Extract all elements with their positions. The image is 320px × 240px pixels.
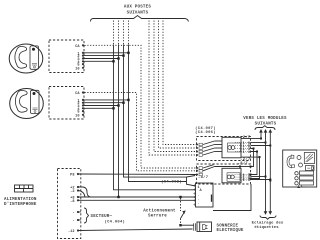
bus wire B1 dashed top [113, 21, 115, 45]
svg-text:-8/7: -8/7 [198, 175, 209, 180]
post X2 pin 10 [75, 114, 84, 119]
svg-text:VERS LES MODULES: VERS LES MODULES [243, 117, 287, 121]
U4 top out row [241, 166, 251, 168]
module U4 dashed box [197, 164, 251, 184]
post X1 pin 5 [77, 63, 84, 68]
bus wire B4 solid [129, 45, 187, 182]
svg-text:SUIVANTS: SUIVANTS [127, 12, 149, 16]
junction switch top [179, 196, 181, 198]
junction [112, 60, 114, 62]
post X2 pin 1 [77, 99, 84, 104]
svg-text:SONNERIE: SONNERIE [217, 224, 239, 228]
vers vertical 2 [264, 130, 266, 143]
junction [127, 52, 129, 54]
svg-text:Actionnement: Actionnement [143, 209, 176, 214]
call wire CA1 from post 1 [85, 45, 197, 168]
PS1 pin sect2 [72, 219, 80, 224]
svg-text:10: 10 [75, 67, 79, 71]
PS1 pin -2 [70, 189, 79, 194]
wire post1 pin1 to bus [84, 52, 129, 54]
bus wire B3 solid [124, 45, 187, 178]
bell H1 [194, 222, 212, 232]
actionnement serrure text [143, 209, 176, 219]
svg-text:-12: -12 [68, 230, 74, 234]
SECTEUR brace [84, 208, 89, 223]
post X1 pin 2 [77, 55, 84, 60]
svg-text:A: A [200, 189, 203, 193]
svg-text:(C4.006): (C4.006) [195, 130, 216, 135]
junction [117, 104, 119, 106]
wire B to door box [78, 199, 196, 201]
legend buttons [300, 171, 314, 175]
junction [122, 102, 124, 104]
post X1 pin 10 [75, 67, 84, 72]
eclairage text [252, 220, 284, 230]
svg-text:ALIMENTATION: ALIMENTATION [4, 198, 37, 202]
PS1 pin +2 [70, 186, 79, 191]
vers vertical 3 [269, 130, 271, 146]
station column S4 dashed [163, 21, 197, 145]
funnel connector [187, 176, 196, 187]
svg-text:(C4.008): (C4.008) [161, 180, 182, 185]
U3 out wire 3 [251, 145, 271, 147]
wire post1 pin2 to bus [84, 55, 124, 57]
post X2 pin 3 [77, 104, 84, 109]
U3 top out row [241, 138, 251, 140]
telephone icon P2 [10, 89, 44, 119]
wire post2 pin2 to bus [84, 102, 124, 104]
U3 coil symbol [228, 143, 241, 152]
alimentation text [4, 198, 37, 207]
brace under title [91, 16, 189, 22]
post X1 pin CA [75, 44, 84, 49]
svg-text:Serrure: Serrure [148, 215, 167, 219]
U3 pin rows dashed [235, 143, 251, 152]
U3 pin connectors [196, 143, 202, 156]
PS1 pin P8 [70, 173, 81, 178]
U3 out wire 6 down [251, 157, 260, 178]
bus wire B2 dashed top [118, 21, 120, 45]
post X2 pin 4 [77, 107, 84, 112]
legend handset [288, 157, 292, 167]
svg-text:-8/7: -8/7 [238, 161, 249, 166]
vers vertical 1 [260, 130, 262, 139]
svg-text:SECTEUR—: SECTEUR— [91, 215, 113, 219]
PS1 pin -12 [68, 229, 79, 234]
wire +2/-2 merge [78, 187, 91, 197]
post box X2 dashed [49, 87, 84, 120]
door station box U5 [196, 183, 214, 207]
U5 labels [198, 186, 203, 206]
U3 out wire 5 down [251, 152, 258, 175]
power supply box PS1 dashed [58, 169, 81, 239]
svg-text:(C4.004): (C4.004) [105, 220, 126, 225]
PS1 pin sect1 [72, 211, 80, 216]
title AUX POSTES SUIVANTS [124, 6, 151, 16]
wire U4 corner down to door box [213, 184, 251, 211]
bus wire B2 solid [118, 45, 120, 198]
call wire CA2 from post 2 [85, 93, 197, 171]
wire A to door box [78, 196, 196, 198]
U3 bottom out row [241, 156, 251, 158]
PS1 pin +8 [70, 196, 79, 201]
wire post2 pin1 to bus [84, 99, 129, 101]
bus wire B1 solid [114, 45, 196, 190]
svg-text:-: - [72, 212, 74, 216]
sonnerie text [217, 224, 244, 233]
svg-text:-2/7: -2/7 [240, 135, 251, 140]
wire P8 to U4 [78, 173, 197, 176]
svg-text:D'INTERPHONE: D'INTERPHONE [4, 202, 37, 207]
U5 right edge connector bar [211, 195, 213, 202]
bus wire B4 dashed top [128, 21, 130, 45]
junction switch bottom [179, 224, 181, 226]
post X2 pin 5 [77, 110, 84, 115]
junction [122, 54, 124, 56]
junction [127, 99, 129, 101]
wire post1 pin4 to bus [84, 60, 114, 62]
legend speaker [304, 153, 314, 164]
station column S1 dashed [149, 21, 197, 156]
station column S2 dashed [154, 21, 197, 152]
post X1 pin 3 [77, 57, 84, 62]
svg-text:-8: -8 [70, 200, 74, 204]
post X2 pin 2 [77, 102, 84, 107]
U3 out wire 1 [251, 138, 262, 140]
svg-text:-: - [72, 220, 74, 224]
svg-text:-2: -2 [70, 190, 74, 194]
vers continuation vertical 2 down [264, 143, 266, 214]
U4 inner module box [222, 168, 241, 183]
svg-text:-1.1: -1.1 [240, 151, 251, 155]
post X1 pin 1 [77, 52, 84, 57]
svg-text:AUX POSTES: AUX POSTES [124, 6, 151, 10]
station column S3 dashed [159, 21, 197, 149]
bus wire B3 dashed top [123, 21, 125, 45]
U5 pins [194, 185, 196, 206]
post box X1 dashed [49, 40, 84, 73]
U3 out wire 4 down [251, 149, 254, 167]
wire post1 pin3 to bus [84, 58, 119, 60]
U4 right labels [238, 161, 251, 183]
telephone icon P1 [9, 44, 43, 73]
svg-text:-1.1: -1.1 [240, 179, 251, 183]
U4 out wires right [251, 177, 272, 181]
svg-text:P8: P8 [70, 174, 74, 178]
brace under VERS [255, 126, 275, 130]
svg-text:Eclairage des: Eclairage des [252, 220, 284, 225]
vers continuation vertical 3 down [269, 146, 271, 214]
wire post2 pin3 to bus [84, 105, 119, 107]
U4 coil symbol [227, 173, 240, 182]
svg-text:.: . [198, 202, 200, 206]
junction bus B2 end [117, 196, 119, 198]
U4 pin connectors [196, 167, 202, 176]
VERS LES MODULES SUIVANTS [243, 117, 287, 127]
post X2 pin CA [75, 91, 84, 96]
wire switch to bell [181, 224, 194, 226]
eclairage brace [260, 216, 276, 220]
svg-text:10: 10 [75, 114, 79, 118]
junction [117, 57, 119, 59]
legend circles [297, 156, 301, 160]
svg-text:CA: CA [75, 92, 80, 96]
U3 inner module box [222, 137, 241, 158]
post X1 pin 4 [77, 60, 84, 65]
transformer T1 [15, 185, 34, 192]
lock switch S5 dashed [180, 198, 182, 211]
U3 out wire 2 [251, 142, 266, 144]
wire -12 to bell [78, 229, 193, 231]
wire post2 pin4 to bus [84, 107, 114, 109]
svg-text:SUIVANTS: SUIVANTS [255, 122, 277, 126]
legend lock [306, 166, 315, 171]
U3 right labels [240, 135, 251, 162]
U4 switch blade [203, 165, 241, 171]
junction [112, 107, 114, 109]
svg-text:ELECTRIQUE: ELECTRIQUE [217, 229, 244, 233]
svg-text:étiquettes: étiquettes [254, 225, 279, 230]
street panel legend box [283, 150, 317, 188]
module U3 dashed box [197, 137, 251, 161]
PS1 pin -8 [70, 199, 79, 204]
U3 switch blades [203, 141, 222, 155]
svg-text:CA: CA [75, 45, 80, 49]
U4 pin rows dashed [235, 175, 251, 180]
